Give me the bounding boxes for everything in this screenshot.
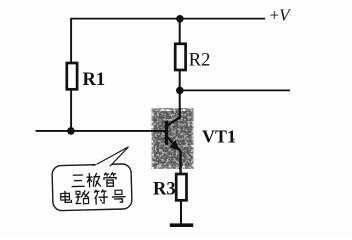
号 (112, 190, 125, 202)
管 (104, 173, 117, 187)
emitter lead (167, 137, 181, 175)
svg-text:+V: +V (270, 6, 293, 25)
符 (95, 190, 108, 204)
callout text line2: 电路符号 (61, 189, 126, 205)
callout tail (94, 147, 128, 166)
base bar (165, 121, 168, 145)
svg-text:VT1: VT1 (202, 126, 236, 146)
transistor VT1 highlight box (154, 111, 192, 166)
emitter arrow (171, 141, 179, 150)
极 (87, 173, 101, 187)
resistor R2 (175, 44, 185, 70)
svg-text:R1: R1 (83, 70, 106, 90)
svg-text:R2: R2 (189, 51, 211, 71)
callout bubble (51, 147, 132, 211)
transistor VT1 symbol (166, 108, 180, 175)
junction node: base rail / R1 (67, 127, 75, 135)
resistor R3 (176, 174, 186, 200)
wire: output rail to the right (180, 89, 290, 91)
scan speck after VT1 (233, 139, 235, 141)
collector lead (167, 108, 180, 126)
wire: emitter to ground (180, 200, 182, 225)
junction node: output rail / collector (176, 87, 184, 95)
ground (170, 223, 193, 227)
电 (61, 191, 72, 202)
路 (76, 191, 90, 204)
wire: +V top rail (70, 18, 265, 20)
wire: base input rail (36, 130, 167, 132)
wire: R2 branch vertical (collector feed) (179, 19, 181, 118)
svg-text:R3: R3 (153, 180, 176, 200)
resistor R1 (67, 63, 77, 89)
junction node: top rail / R2 (176, 15, 184, 23)
wire: R1 branch vertical (70, 19, 72, 131)
callout text line1: 三极管 (72, 173, 117, 188)
三 (72, 175, 84, 187)
